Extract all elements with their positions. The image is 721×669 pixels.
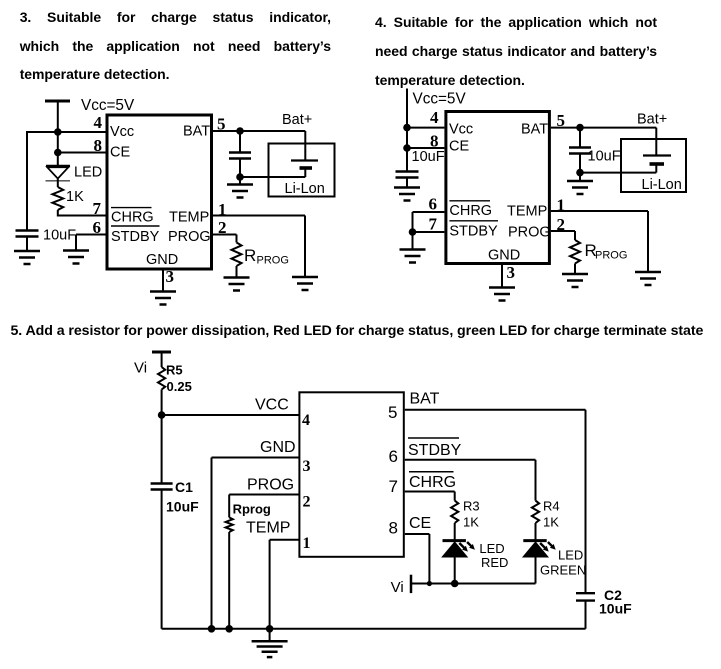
svg-text:TEMP: TEMP [507, 204, 547, 220]
svg-text:R5: R5 [166, 363, 183, 378]
svg-text:10uF: 10uF [412, 149, 445, 165]
svg-text:Vi: Vi [134, 360, 147, 377]
svg-text:BAT: BAT [410, 390, 440, 407]
svg-text:STDBY: STDBY [449, 224, 498, 240]
svg-text:GND: GND [146, 252, 178, 268]
svg-text:CHRG: CHRG [111, 210, 154, 226]
svg-text:6: 6 [389, 447, 398, 466]
svg-text:Li-Lon: Li-Lon [642, 177, 682, 193]
svg-text:10uF: 10uF [599, 601, 632, 617]
svg-text:2: 2 [218, 218, 227, 237]
svg-text:GREEN: GREEN [540, 563, 586, 578]
svg-text:8: 8 [94, 136, 103, 155]
svg-text:8: 8 [389, 519, 398, 538]
svg-text:R: R [244, 246, 256, 265]
svg-text:5: 5 [557, 111, 566, 130]
svg-text:6: 6 [429, 195, 438, 214]
svg-text:PROG: PROG [257, 255, 289, 267]
svg-text:0.25: 0.25 [167, 379, 192, 394]
svg-text:1K: 1K [463, 515, 479, 530]
svg-text:4: 4 [94, 113, 103, 132]
svg-text:PROG: PROG [247, 477, 294, 494]
svg-text:10uF: 10uF [43, 228, 76, 244]
svg-text:CE: CE [449, 139, 469, 155]
svg-text:1K: 1K [66, 189, 84, 205]
svg-text:4: 4 [302, 412, 310, 429]
svg-text:7: 7 [389, 477, 398, 496]
svg-text:7: 7 [429, 215, 438, 234]
svg-text:5: 5 [388, 403, 397, 422]
svg-text:Bat+: Bat+ [637, 112, 667, 128]
svg-text:Vcc: Vcc [110, 124, 134, 140]
svg-text:Vcc=5V: Vcc=5V [81, 97, 135, 114]
svg-text:BAT: BAT [183, 124, 210, 140]
svg-text:Vi: Vi [391, 579, 404, 596]
svg-text:PROG: PROG [508, 225, 551, 241]
svg-text:BAT: BAT [521, 122, 548, 138]
svg-text:PROG: PROG [168, 229, 211, 245]
svg-text:3: 3 [507, 263, 516, 282]
svg-text:RED: RED [481, 555, 508, 570]
svg-text:CE: CE [409, 515, 431, 532]
svg-text:TEMP: TEMP [246, 520, 290, 537]
svg-text:2: 2 [557, 215, 566, 234]
svg-text:10uF: 10uF [166, 499, 199, 515]
svg-text:10uF: 10uF [588, 149, 621, 165]
svg-text:LED: LED [479, 541, 504, 556]
svg-text:GND: GND [488, 248, 520, 264]
svg-text:1: 1 [303, 535, 311, 552]
svg-text:2: 2 [303, 494, 311, 511]
svg-text:STDBY: STDBY [408, 442, 462, 459]
svg-text:4: 4 [430, 108, 439, 127]
svg-text:CHRG: CHRG [449, 203, 492, 219]
svg-text:1: 1 [218, 200, 227, 219]
svg-text:Bat+: Bat+ [282, 112, 312, 128]
svg-text:8: 8 [430, 132, 439, 151]
svg-text:6: 6 [93, 218, 102, 237]
svg-text:GND: GND [260, 439, 296, 456]
svg-text:LED: LED [74, 165, 102, 181]
svg-text:C1: C1 [175, 479, 193, 495]
svg-text:CE: CE [110, 145, 130, 161]
svg-text:LED: LED [558, 548, 583, 563]
svg-text:PROG: PROG [595, 250, 627, 262]
svg-text:R3: R3 [463, 499, 480, 514]
svg-text:1K: 1K [543, 515, 559, 530]
svg-text:Vcc: Vcc [449, 121, 473, 137]
svg-text:Li-Lon: Li-Lon [285, 181, 325, 197]
svg-text:R4: R4 [543, 499, 560, 514]
svg-text:3: 3 [303, 458, 311, 475]
svg-text:7: 7 [93, 199, 102, 218]
svg-text:STDBY: STDBY [111, 229, 160, 245]
svg-text:VCC: VCC [255, 397, 289, 414]
svg-text:3: 3 [166, 267, 175, 286]
svg-text:Vcc=5V: Vcc=5V [413, 91, 467, 108]
svg-text:Rprog: Rprog [233, 502, 271, 517]
svg-text:TEMP: TEMP [169, 210, 209, 226]
svg-text:CHRG: CHRG [409, 474, 456, 491]
svg-text:1: 1 [557, 196, 566, 215]
svg-text:5: 5 [217, 115, 226, 134]
